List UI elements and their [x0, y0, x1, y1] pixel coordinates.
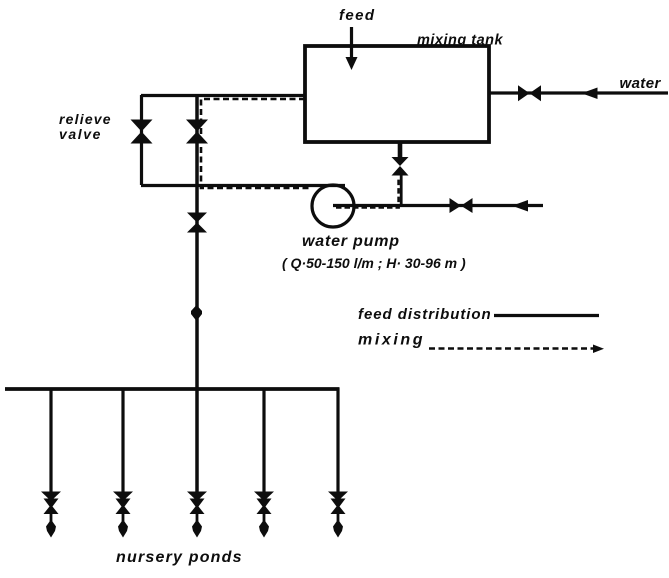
valve V2 (vertical, on main line inside loop): [186, 120, 208, 144]
svg-text:valve: valve: [59, 126, 102, 142]
feed inlet arrow: [346, 27, 358, 70]
wire: loop bottom line to pump: [141, 184, 345, 187]
mixing tank T1: [305, 46, 489, 142]
pond drop 1: arrow + valve + outlet arrow: [41, 492, 61, 538]
valve V4 (vertical, tank bottom): [392, 157, 409, 176]
legend: mixing: [358, 332, 604, 354]
dashed mixing line: tank left port, around loop to pump top: [201, 99, 311, 188]
wire: pond drop 5 (header right end): [336, 388, 339, 493]
svg-text:nursery ponds: nursery ponds: [116, 549, 243, 566]
valve V6 (horizontal, pump suction side): [450, 198, 473, 213]
svg-text:( Q·50-150 l/m ; H· 30-96 m ): ( Q·50-150 l/m ; H· 30-96 m ): [282, 255, 466, 271]
wire: pond drop 2: [121, 389, 124, 493]
dashed mixing line: pump to tank-bottom valve: [336, 177, 399, 208]
svg-text:relieve: relieve: [59, 111, 112, 127]
svg-text:feed: feed: [339, 7, 375, 24]
svg-text:water pump: water pump: [302, 233, 400, 250]
pond drop 3 (end of main line): arrow + valve + outlet arrow: [187, 492, 207, 538]
wire: main distribution vertical line: [195, 95, 199, 492]
pond drop 2: arrow + valve + outlet arrow: [113, 492, 133, 538]
label: relieve valve: [59, 111, 112, 142]
wire: loop top line (tank left port to relief branch): [141, 94, 305, 97]
valve V3 (vertical, on main line below loop): [187, 213, 207, 233]
legend: feed distribution: [358, 306, 599, 323]
wire: water supply line to tank: [489, 91, 668, 94]
wire: tank bottom drain to valve: [398, 142, 403, 158]
svg-text:mixing: mixing: [358, 332, 425, 349]
wire: valve to pump line (solid): [400, 175, 403, 205]
flow arrow on main line (pointing down): [191, 305, 202, 321]
wire: distribution header: [5, 387, 340, 391]
wire: pond drop 4: [262, 389, 265, 493]
flow arrow on water line (pointing left): [582, 88, 598, 100]
wire: pump discharge line to water inlet: [333, 204, 543, 207]
wire: loop left vertical branch: [140, 95, 143, 185]
valve V5 (water supply, horizontal): [518, 85, 541, 101]
wire: pond drop 1: [49, 389, 52, 493]
relief valve V1 (vertical): [131, 120, 153, 144]
flow arrow on pump suction line (pointing left): [512, 200, 528, 212]
water pump P1 (circle): [312, 185, 354, 227]
svg-text:feed distribution: feed distribution: [358, 306, 492, 323]
svg-text:water: water: [620, 75, 662, 92]
pond drop 4: arrow + valve + outlet arrow: [254, 492, 274, 538]
svg-text:mixing tank: mixing tank: [417, 33, 504, 49]
pond drop 5: arrow + valve + outlet arrow: [328, 492, 348, 538]
